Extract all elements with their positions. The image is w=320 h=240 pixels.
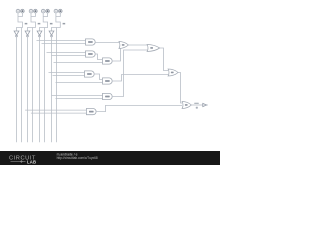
svg-text:LAB: LAB xyxy=(27,159,36,164)
svg-text:http://circuitlab.com/c/7uyx68: http://circuitlab.com/c/7uyx68 xyxy=(57,156,98,160)
